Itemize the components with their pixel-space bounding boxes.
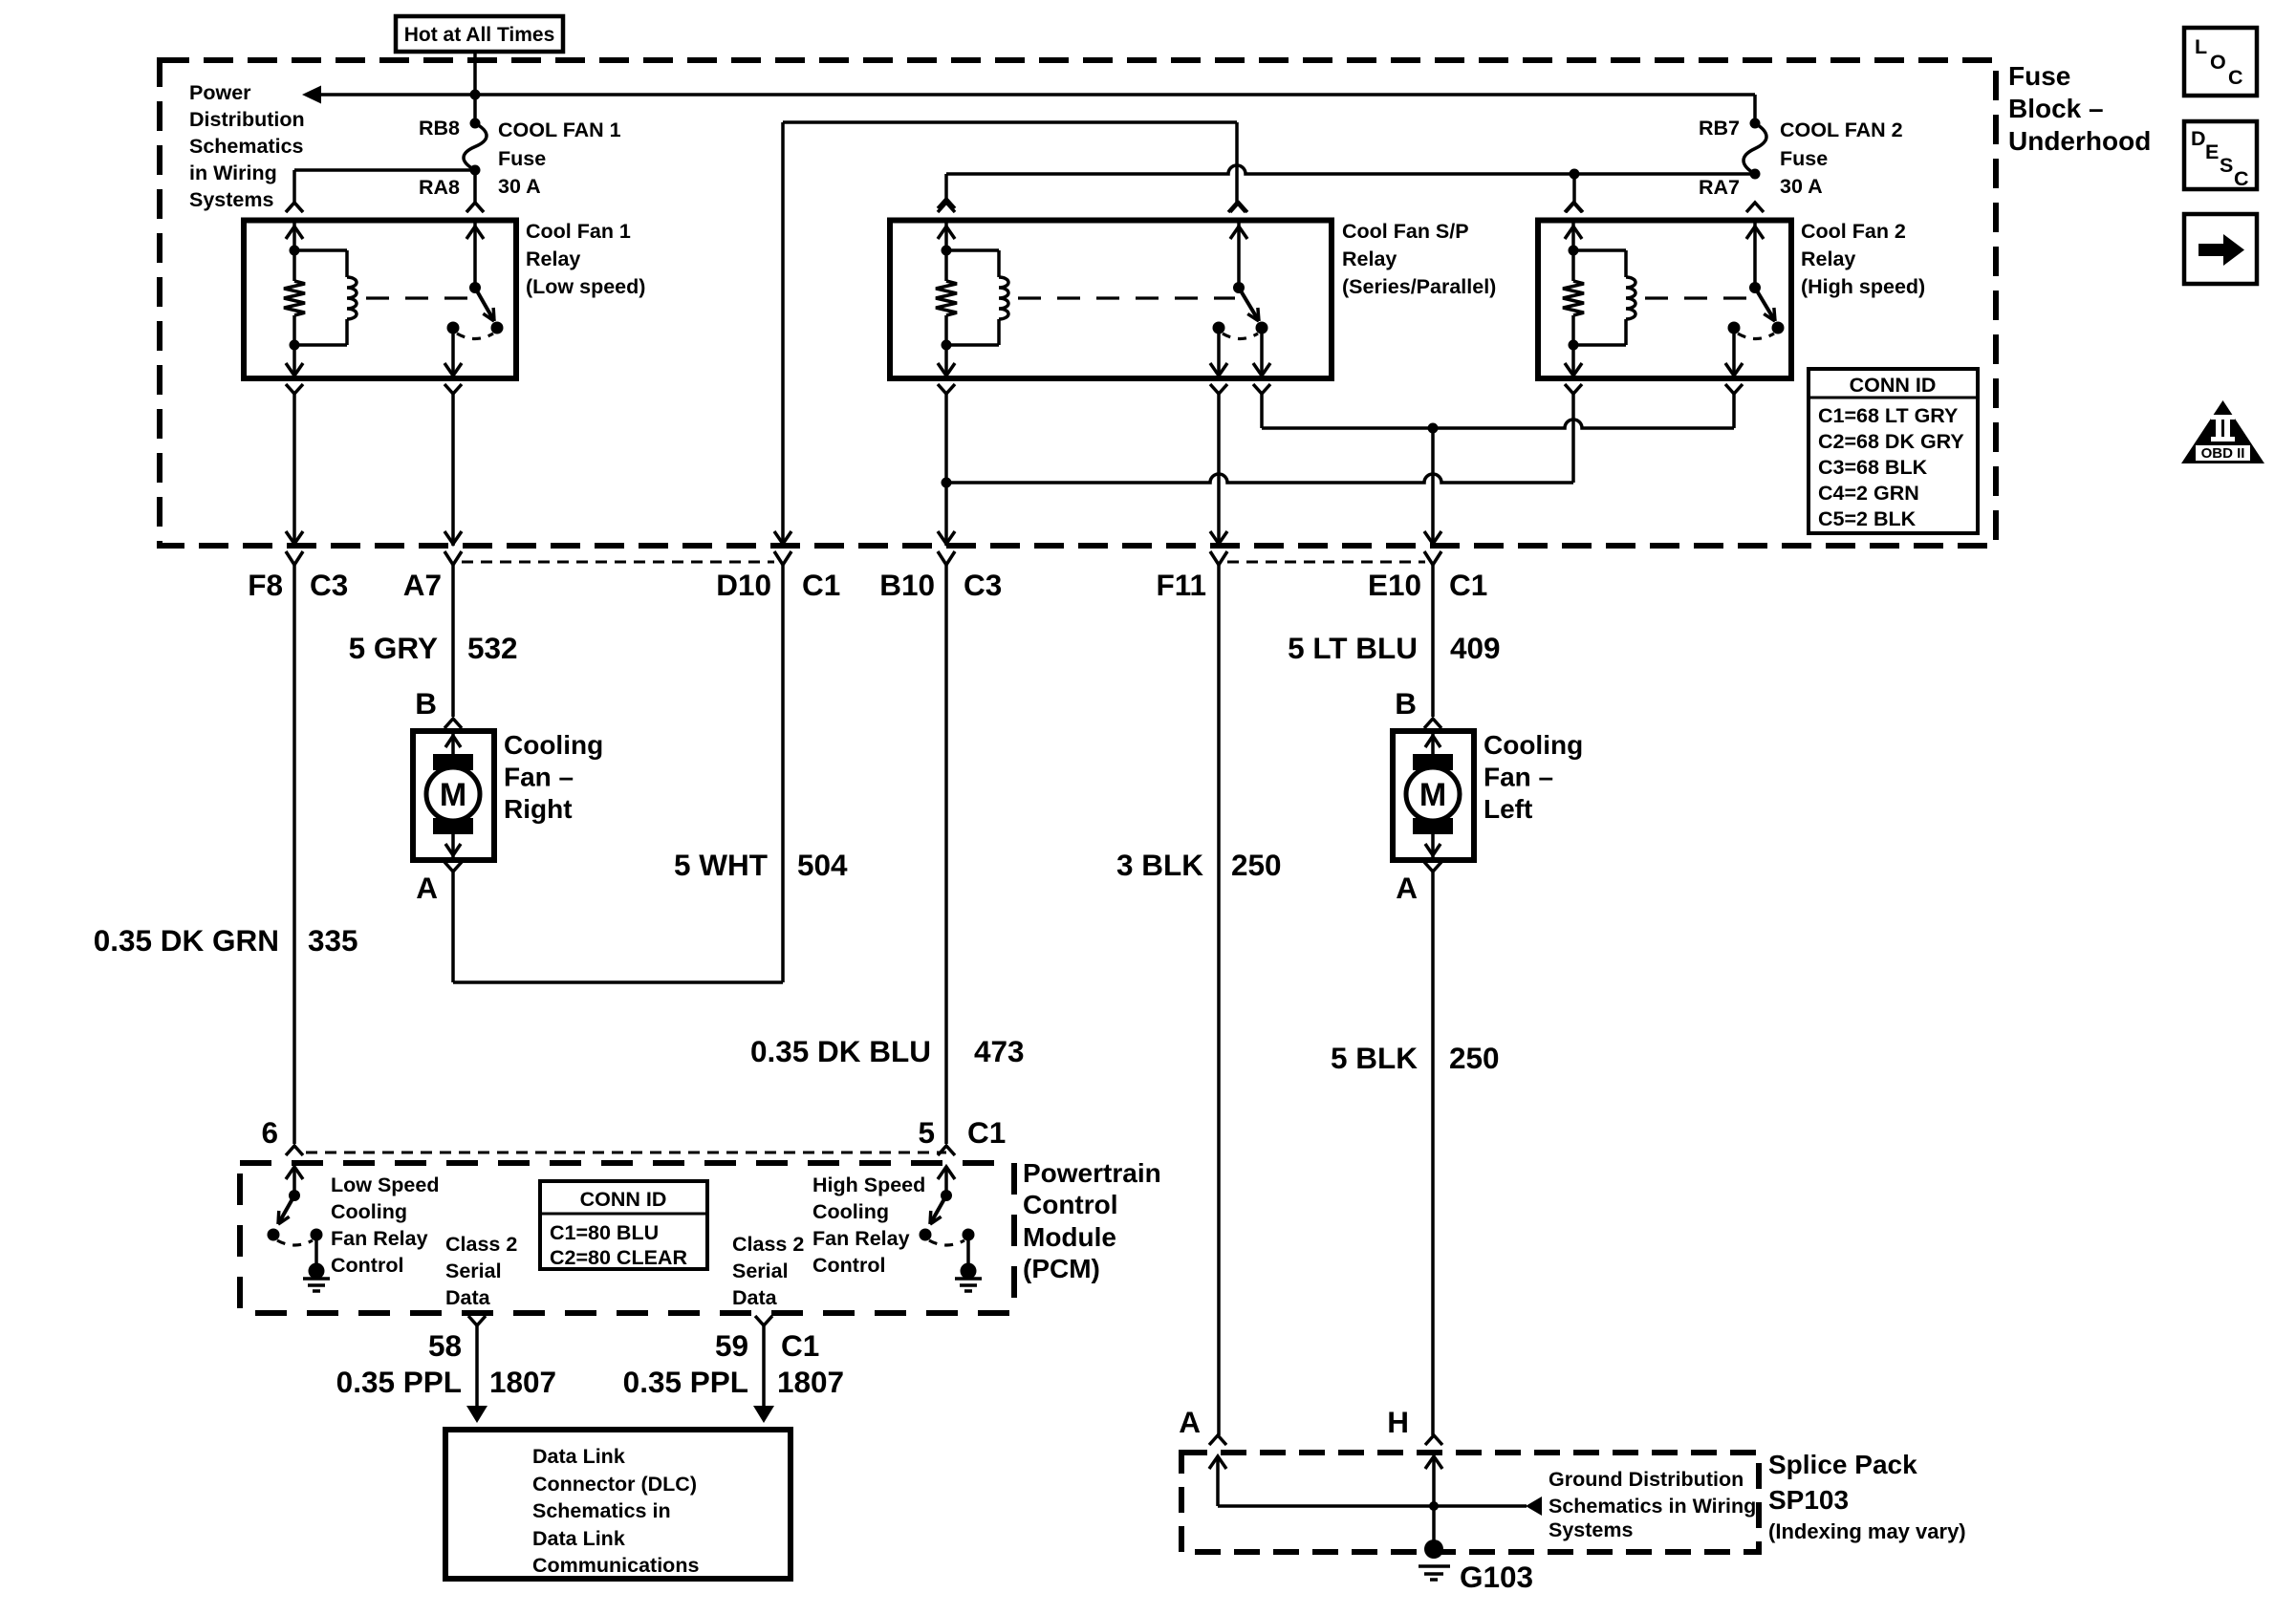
svg-text:Cooling: Cooling	[1484, 730, 1583, 760]
svg-text:250: 250	[1231, 848, 1282, 882]
svg-text:RA8: RA8	[419, 176, 460, 199]
svg-text:6: 6	[261, 1115, 278, 1150]
svg-text:E: E	[2205, 140, 2219, 163]
svg-text:Block –: Block –	[2008, 94, 2104, 123]
svg-text:F8: F8	[248, 568, 283, 602]
svg-text:CONN ID: CONN ID	[580, 1188, 667, 1211]
svg-text:RB7: RB7	[1699, 117, 1740, 140]
svg-text:Fan –: Fan –	[504, 763, 574, 792]
svg-text:Data: Data	[445, 1286, 491, 1309]
svg-text:RA7: RA7	[1699, 176, 1740, 199]
svg-text:Fuse: Fuse	[2008, 61, 2070, 91]
svg-text:Fuse: Fuse	[1780, 147, 1828, 170]
svg-text:Schematics: Schematics	[189, 135, 304, 158]
svg-text:Hot at All Times: Hot at All Times	[404, 24, 555, 46]
svg-text:1807: 1807	[777, 1365, 844, 1399]
svg-text:Distribution: Distribution	[189, 108, 305, 131]
svg-text:D: D	[2191, 127, 2206, 150]
svg-text:Left: Left	[1484, 794, 1532, 824]
svg-text:30 A: 30 A	[498, 175, 541, 198]
svg-text:250: 250	[1449, 1041, 1500, 1075]
svg-text:C5=2 BLK: C5=2 BLK	[1818, 507, 1917, 530]
svg-text:C: C	[2228, 66, 2243, 89]
svg-text:Control: Control	[1023, 1190, 1118, 1219]
svg-text:Systems: Systems	[1549, 1518, 1633, 1541]
svg-text:Fan Relay: Fan Relay	[812, 1227, 910, 1250]
svg-text:Communications: Communications	[532, 1554, 699, 1577]
svg-text:Control: Control	[812, 1254, 885, 1277]
svg-text:C: C	[2234, 167, 2249, 190]
svg-text:0.35 DK BLU: 0.35 DK BLU	[750, 1034, 931, 1068]
svg-text:5 LT BLU: 5 LT BLU	[1288, 631, 1418, 665]
svg-text:OBD II: OBD II	[2201, 445, 2245, 462]
svg-text:E10: E10	[1368, 568, 1421, 602]
svg-text:Cooling: Cooling	[331, 1200, 407, 1223]
svg-text:Powertrain: Powertrain	[1023, 1158, 1161, 1188]
svg-text:(Series/Parallel): (Series/Parallel)	[1342, 275, 1496, 298]
svg-text:Cool Fan 2: Cool Fan 2	[1801, 220, 1906, 243]
svg-text:58: 58	[428, 1328, 462, 1363]
svg-text:Connector (DLC): Connector (DLC)	[532, 1473, 697, 1496]
svg-text:in Wiring: in Wiring	[189, 161, 277, 184]
svg-text:Cooling: Cooling	[812, 1200, 889, 1223]
svg-text:B: B	[1395, 686, 1417, 721]
svg-text:A7: A7	[403, 568, 442, 602]
svg-text:SP103: SP103	[1768, 1485, 1849, 1515]
svg-text:Splice Pack: Splice Pack	[1768, 1450, 1917, 1479]
svg-text:Right: Right	[504, 794, 573, 824]
svg-text:H: H	[1387, 1405, 1409, 1439]
svg-text:Serial: Serial	[732, 1260, 789, 1282]
svg-text:Power: Power	[189, 81, 251, 104]
svg-text:Data: Data	[732, 1286, 778, 1309]
svg-text:C4=2 GRN: C4=2 GRN	[1818, 482, 1919, 505]
svg-text:F11: F11	[1156, 568, 1206, 602]
svg-text:C1: C1	[967, 1115, 1006, 1150]
svg-text:COOL FAN 1: COOL FAN 1	[498, 118, 621, 141]
svg-text:COOL FAN 2: COOL FAN 2	[1780, 118, 1903, 141]
svg-text:Low Speed: Low Speed	[331, 1174, 439, 1196]
svg-text:C2=68 DK GRY: C2=68 DK GRY	[1818, 430, 1964, 453]
svg-text:5: 5	[918, 1115, 935, 1150]
svg-text:C1: C1	[1449, 568, 1487, 602]
svg-text:5 WHT: 5 WHT	[674, 848, 768, 882]
svg-text:A: A	[416, 871, 438, 905]
svg-text:A: A	[1396, 871, 1418, 905]
svg-text:59: 59	[715, 1328, 748, 1363]
svg-text:Cool Fan S/P: Cool Fan S/P	[1342, 220, 1469, 243]
svg-text:M: M	[1419, 777, 1446, 813]
svg-text:B: B	[415, 686, 437, 721]
svg-text:Fuse: Fuse	[498, 147, 546, 170]
svg-text:0.35 PPL: 0.35 PPL	[623, 1365, 748, 1399]
svg-text:Schematics in: Schematics in	[532, 1499, 671, 1522]
svg-text:409: 409	[1450, 631, 1501, 665]
svg-text:Cooling: Cooling	[504, 730, 603, 760]
svg-text:3 BLK: 3 BLK	[1116, 848, 1203, 882]
svg-text:Serial: Serial	[445, 1260, 502, 1282]
svg-text:C3=68 BLK: C3=68 BLK	[1818, 456, 1928, 479]
svg-text:B10: B10	[879, 568, 935, 602]
svg-text:D10: D10	[716, 568, 771, 602]
svg-text:1807: 1807	[489, 1365, 556, 1399]
svg-text:335: 335	[308, 923, 358, 958]
svg-text:504: 504	[797, 848, 848, 882]
svg-text:(Indexing may vary): (Indexing may vary)	[1768, 1519, 1966, 1543]
svg-text:Control: Control	[331, 1254, 403, 1277]
svg-text:High Speed: High Speed	[812, 1174, 925, 1196]
svg-text:M: M	[440, 777, 466, 813]
svg-text:Module: Module	[1023, 1222, 1116, 1252]
svg-text:S: S	[2220, 154, 2233, 177]
svg-text:Systems: Systems	[189, 188, 273, 211]
svg-text:Ground Distribution: Ground Distribution	[1549, 1468, 1744, 1491]
svg-text:Relay: Relay	[1342, 248, 1397, 270]
svg-text:Fan –: Fan –	[1484, 763, 1553, 792]
svg-text:473: 473	[974, 1034, 1025, 1068]
svg-text:CONN ID: CONN ID	[1850, 374, 1937, 397]
svg-text:0.35 DK GRN: 0.35 DK GRN	[94, 923, 279, 958]
svg-text:Underhood: Underhood	[2008, 126, 2151, 156]
svg-text:Relay: Relay	[1801, 248, 1855, 270]
svg-text:C3: C3	[964, 568, 1002, 602]
svg-text:C3: C3	[310, 568, 348, 602]
svg-text:Data Link: Data Link	[532, 1445, 625, 1468]
svg-text:5 GRY: 5 GRY	[349, 631, 438, 665]
svg-text:532: 532	[467, 631, 518, 665]
svg-text:RB8: RB8	[419, 117, 460, 140]
svg-text:A: A	[1179, 1405, 1201, 1439]
svg-text:0.35 PPL: 0.35 PPL	[336, 1365, 462, 1399]
svg-text:L: L	[2195, 35, 2207, 58]
svg-text:C1: C1	[802, 568, 840, 602]
svg-text:Data Link: Data Link	[532, 1527, 625, 1550]
svg-text:Class 2: Class 2	[732, 1233, 804, 1256]
svg-text:Relay: Relay	[526, 248, 580, 270]
svg-text:Class 2: Class 2	[445, 1233, 517, 1256]
svg-text:C1: C1	[781, 1328, 819, 1363]
svg-text:G103: G103	[1460, 1560, 1533, 1594]
svg-text:Schematics in Wiring: Schematics in Wiring	[1549, 1495, 1756, 1518]
svg-text:C1=68 LT GRY: C1=68 LT GRY	[1818, 404, 1958, 427]
svg-text:(Low speed): (Low speed)	[526, 275, 645, 298]
svg-text:O: O	[2210, 51, 2226, 74]
svg-text:Cool Fan 1: Cool Fan 1	[526, 220, 631, 243]
svg-text:C1=80 BLU: C1=80 BLU	[550, 1221, 659, 1244]
svg-text:Fan Relay: Fan Relay	[331, 1227, 428, 1250]
svg-text:5 BLK: 5 BLK	[1331, 1041, 1418, 1075]
svg-text:30 A: 30 A	[1780, 175, 1823, 198]
svg-text:(High speed): (High speed)	[1801, 275, 1925, 298]
svg-text:C2=80 CLEAR: C2=80 CLEAR	[550, 1246, 687, 1269]
svg-text:(PCM): (PCM)	[1023, 1254, 1100, 1283]
